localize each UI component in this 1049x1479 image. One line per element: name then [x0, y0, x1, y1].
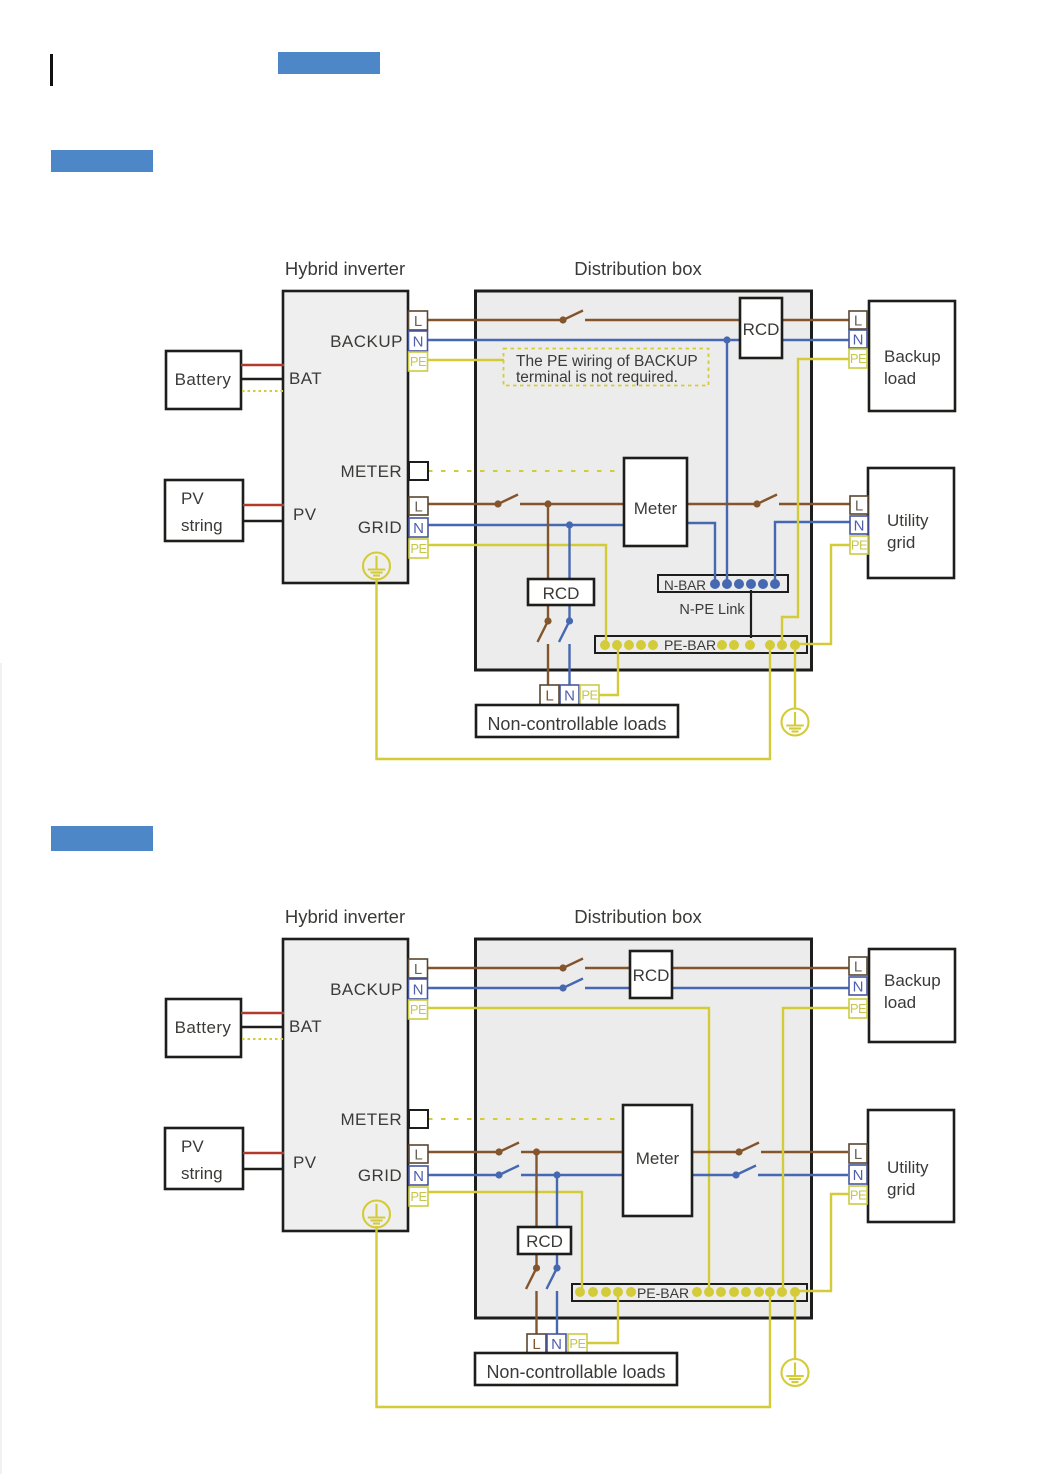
d1 wire inverter ground to PE-BAR	[377, 578, 771, 759]
d2 switch GRID L right	[735, 1143, 759, 1156]
d2 wire PE-BAR to earth	[794, 1292, 796, 1359]
svg-text:N: N	[853, 1167, 864, 1184]
svg-text:PV: PV	[181, 489, 204, 508]
d1 wire N-BAR to utility N	[775, 522, 850, 584]
svg-text:N: N	[853, 331, 864, 348]
svg-text:load: load	[884, 369, 916, 388]
d2 wire GRID N segment a	[428, 1174, 499, 1176]
d2 loads terminal N	[547, 1334, 566, 1353]
d2 wire GRID L segment c	[761, 1151, 848, 1153]
svg-text:Backup: Backup	[884, 971, 941, 990]
d1 PV string box	[165, 480, 243, 541]
svg-text:N: N	[854, 517, 865, 534]
d2 wire battery comm dotted	[242, 1038, 284, 1040]
svg-text:PV: PV	[181, 1137, 204, 1156]
svg-text:Utility: Utility	[887, 511, 929, 530]
d1 note dashed box	[504, 349, 709, 386]
d2 switch GRID N right	[732, 1166, 756, 1179]
svg-text:Non-controllable loads: Non-controllable loads	[486, 1362, 665, 1382]
d1 N-BAR body	[658, 575, 788, 592]
d2 switch RCD N	[547, 1264, 561, 1289]
d1 wire GRID PE to PE-BAR	[428, 545, 606, 645]
d1 junction GRID L	[544, 500, 551, 507]
d1 PE-BAR dots	[600, 640, 800, 650]
d2 inverter GRID terminal N	[409, 1166, 428, 1185]
d2 loads terminal PE	[568, 1334, 587, 1353]
d2 utility terminal L	[849, 1144, 867, 1163]
d2 wire GRID N segment b	[521, 1174, 736, 1176]
d1 wire backup load PE	[782, 359, 849, 645]
svg-text:L: L	[414, 961, 422, 978]
d2 switch RCD L	[526, 1264, 540, 1289]
d1 inverter GRID terminal L	[409, 497, 428, 515]
d1 utility grid label	[887, 511, 929, 552]
svg-text:PE-BAR: PE-BAR	[664, 637, 716, 653]
svg-text:PE: PE	[850, 1188, 867, 1203]
d1 junction BACKUP N	[723, 336, 730, 343]
d1 distribution box body	[476, 291, 812, 670]
d1 wire BACKUP PE to note	[428, 359, 504, 361]
d1 PE-BAR body	[595, 636, 807, 653]
d2 hybrid inverter body	[283, 939, 408, 1231]
d1 RCD backup box	[740, 298, 782, 358]
d2 distribution box body	[476, 939, 812, 1318]
svg-text:N: N	[853, 978, 864, 995]
d2 wire GRID PE to PE-BAR	[428, 1192, 582, 1292]
d2 inverter BACKUP terminal L	[409, 959, 428, 978]
svg-text:N: N	[564, 687, 575, 704]
d1 backup load terminal N	[849, 330, 867, 348]
svg-text:PE: PE	[410, 1002, 427, 1017]
d2 inverter BACKUP terminal N	[409, 979, 428, 999]
d1 wire RCD N to loads	[568, 644, 570, 686]
d2 inverter BACKUP terminal PE	[409, 1000, 428, 1019]
svg-text:grid: grid	[887, 533, 915, 552]
d2 backup load terminal L	[849, 957, 867, 975]
svg-text:L: L	[532, 1336, 540, 1353]
d1 loads terminal N	[560, 685, 579, 705]
redaction block heading 2	[51, 150, 153, 172]
d2 battery box	[166, 999, 241, 1057]
d1 Meter box	[624, 458, 687, 546]
redaction block heading 1	[278, 52, 380, 74]
d2 non-controllable loads box	[475, 1353, 677, 1385]
d2 wire GRID N segment c	[758, 1174, 848, 1176]
d2 switch BACKUP L	[559, 959, 583, 972]
svg-text:Meter: Meter	[636, 1149, 680, 1168]
svg-text:RCD: RCD	[543, 584, 580, 603]
d2 PV string label	[181, 1137, 223, 1183]
d2 wire loads PE to PE-BAR	[587, 1292, 618, 1343]
svg-text:PE: PE	[410, 354, 427, 369]
svg-text:N: N	[413, 333, 424, 350]
svg-text:PE: PE	[581, 688, 598, 703]
d1 wire PV minus	[243, 520, 284, 523]
svg-text:PE: PE	[851, 538, 868, 553]
svg-text:Distribution box: Distribution box	[574, 906, 702, 927]
svg-text:N-BAR: N-BAR	[664, 578, 706, 593]
d2 PE-BAR dots	[575, 1287, 800, 1297]
d2 inverter earth symbol	[363, 1201, 390, 1228]
svg-text:grid: grid	[887, 1180, 915, 1199]
d2 wire METER dashed	[428, 1118, 623, 1120]
d1 wire RCD L to loads	[547, 644, 549, 686]
d2 wire battery minus	[241, 1026, 284, 1029]
svg-text:The PE wiring of BACKUP: The PE wiring of BACKUP	[516, 353, 698, 370]
svg-text:L: L	[414, 1146, 422, 1163]
d1 wire GRID N	[428, 524, 624, 526]
svg-text:BACKUP: BACKUP	[330, 332, 403, 351]
svg-text:PE: PE	[569, 1336, 586, 1351]
d1 inverter earth symbol	[363, 553, 390, 580]
d2 backup load terminal PE	[849, 999, 867, 1018]
svg-text:L: L	[854, 1146, 862, 1163]
svg-text:Hybrid inverter: Hybrid inverter	[285, 258, 405, 279]
svg-text:Non-controllable loads: Non-controllable loads	[487, 714, 666, 734]
d2 wire RCD L to loads	[535, 1291, 537, 1335]
svg-text:RCD: RCD	[633, 966, 670, 985]
svg-text:L: L	[854, 312, 862, 329]
svg-text:Hybrid inverter: Hybrid inverter	[285, 906, 405, 927]
d1 utility terminal N	[850, 516, 868, 534]
d1 backup load terminal L	[849, 311, 867, 329]
d1 wire METER dashed	[428, 470, 624, 472]
d2 wire backup load PE	[783, 1008, 849, 1292]
svg-text:terminal is not required.: terminal is not required.	[516, 369, 678, 386]
d2 RCD backup box	[630, 951, 672, 998]
d1 inverter GRID terminal PE	[409, 539, 428, 558]
svg-text:N: N	[413, 981, 424, 998]
d1 backup load box	[869, 301, 955, 411]
d2 switch BACKUP N	[559, 979, 583, 992]
d1 PV string label	[181, 489, 223, 535]
d1 wire RCD N vertical	[568, 525, 570, 621]
d1 junction GRID N	[566, 521, 573, 528]
svg-text:Distribution box: Distribution box	[574, 258, 702, 279]
d1 backup load terminal PE	[849, 349, 867, 368]
svg-text:PV: PV	[293, 1153, 317, 1172]
d1 wire BACKUP N to N-BAR	[726, 340, 728, 584]
d1 switch RCD N	[559, 617, 573, 642]
svg-text:N: N	[413, 520, 424, 537]
svg-text:Utility: Utility	[887, 1158, 929, 1177]
svg-text:Backup: Backup	[884, 347, 941, 366]
d1 switch RCD L	[538, 617, 552, 642]
d1 non-controllable loads box	[476, 705, 678, 737]
d2 Meter box	[623, 1105, 692, 1216]
d2 backup load label	[884, 971, 941, 1012]
d1 utility terminal L	[850, 496, 868, 514]
svg-text:GRID: GRID	[358, 1166, 402, 1185]
d1 wire BACKUP L segment b	[585, 319, 849, 321]
d2 wire PV minus	[243, 1168, 284, 1171]
svg-text:PV: PV	[293, 505, 317, 524]
svg-text:PE-BAR: PE-BAR	[637, 1285, 689, 1301]
d2 wire inverter ground to PE-BAR	[377, 1226, 771, 1407]
d2 backup load box	[869, 949, 955, 1042]
d2 wire BACKUP PE to PE-BAR	[428, 1008, 709, 1292]
svg-text:N: N	[551, 1336, 562, 1353]
d1 wire PE-BAR to earth	[794, 645, 796, 708]
d1 wire BACKUP N	[428, 339, 849, 341]
svg-text:L: L	[414, 498, 422, 515]
svg-text:PE: PE	[410, 1189, 427, 1204]
svg-text:L: L	[855, 497, 863, 514]
svg-text:BAT: BAT	[289, 369, 322, 388]
svg-text:L: L	[854, 958, 862, 975]
d2 inverter GRID terminal L	[409, 1145, 428, 1163]
svg-text:load: load	[884, 993, 916, 1012]
d2 switch GRID N left	[495, 1166, 519, 1179]
d1 N-BAR dots	[710, 579, 780, 589]
d1 wire battery plus	[241, 364, 284, 367]
d1 loads terminal PE	[580, 685, 599, 705]
svg-text:N: N	[413, 1168, 424, 1185]
d2 backup load terminal N	[849, 977, 867, 995]
d2 inverter METER terminal	[409, 1110, 428, 1128]
cursor bar top-left	[50, 54, 53, 86]
redaction block heading 3	[51, 826, 153, 851]
d1 RCD loads box	[528, 579, 594, 605]
d1 hybrid inverter body	[283, 291, 408, 583]
d1 switch GRID L right	[753, 495, 777, 508]
d2 junction GRID N	[553, 1171, 560, 1178]
d2 wire RCD N to loads	[556, 1291, 558, 1335]
svg-text:N-PE Link: N-PE Link	[679, 602, 745, 618]
d1 loads terminal L	[540, 685, 559, 705]
d2 wire utility PE	[797, 1194, 849, 1291]
svg-text:METER: METER	[341, 1110, 403, 1129]
d1 wire PV plus	[243, 504, 284, 507]
d2 loads terminal L	[527, 1334, 546, 1353]
d2 wire GRID L segment a	[428, 1151, 499, 1153]
svg-text:RCD: RCD	[526, 1232, 563, 1251]
svg-text:Battery: Battery	[175, 370, 232, 389]
d1 inverter METER terminal	[409, 462, 428, 480]
d1 inverter GRID terminal N	[409, 518, 428, 537]
d1 N-PE link wire	[750, 590, 752, 638]
d2 wire BACKUP L segment b	[585, 967, 849, 969]
d1 wire battery minus	[241, 378, 284, 381]
d2 wire BACKUP N segment b	[585, 987, 849, 989]
d2 junction GRID L	[533, 1148, 540, 1155]
svg-text:METER: METER	[341, 462, 403, 481]
d2 wire RCD N vertical	[556, 1175, 558, 1268]
d1 battery box	[166, 351, 241, 409]
d2 utility terminal PE	[849, 1186, 867, 1204]
svg-text:BACKUP: BACKUP	[330, 980, 403, 999]
svg-text:Meter: Meter	[634, 499, 678, 518]
d1 inverter BACKUP terminal N	[409, 331, 428, 351]
d1 utility grid box	[868, 468, 954, 578]
d2 wire RCD L vertical	[535, 1152, 537, 1268]
svg-text:GRID: GRID	[358, 518, 402, 537]
d1 backup load label	[884, 347, 941, 388]
svg-text:PE: PE	[410, 541, 427, 556]
svg-text:PE: PE	[850, 1001, 867, 1016]
d2 PE-BAR body	[572, 1284, 807, 1301]
d2 utility terminal N	[849, 1165, 867, 1184]
d2 wire battery plus	[241, 1012, 284, 1015]
d1 wire battery comm dotted	[242, 390, 284, 392]
d1 wire RCD L vertical	[547, 504, 549, 621]
d2 wire BACKUP L segment a	[428, 967, 563, 969]
d1 inverter BACKUP terminal L	[409, 311, 428, 330]
d1 wire GRID L segment a	[428, 503, 498, 505]
d1 wire loads PE to PE-BAR	[599, 645, 618, 695]
d2 utility grid box	[868, 1110, 954, 1222]
d2 wire BACKUP N segment a	[428, 987, 563, 989]
d2 inverter GRID terminal PE	[409, 1187, 428, 1206]
d1 utility terminal PE	[850, 536, 868, 554]
d2 PV string box	[165, 1128, 243, 1189]
svg-text:BAT: BAT	[289, 1017, 322, 1036]
d1 external earth symbol	[782, 709, 809, 736]
d2 RCD loads box	[518, 1227, 571, 1254]
d2 wire PV plus	[243, 1152, 284, 1155]
d1 wire GRID L segment b	[520, 503, 757, 505]
svg-text:L: L	[414, 313, 422, 330]
d1 note text	[516, 353, 698, 386]
svg-text:string: string	[181, 516, 223, 535]
d1 switch BACKUP L	[559, 311, 583, 324]
d1 wire meter N to N-BAR	[687, 523, 715, 584]
svg-text:L: L	[545, 687, 553, 704]
svg-text:string: string	[181, 1164, 223, 1183]
svg-text:Battery: Battery	[175, 1018, 232, 1037]
svg-text:RCD: RCD	[743, 320, 780, 339]
d2 wire GRID L segment b	[521, 1151, 739, 1153]
d2 external earth symbol	[782, 1359, 809, 1386]
svg-text:PE: PE	[850, 351, 867, 366]
d2 utility grid label	[887, 1158, 929, 1199]
left margin mark	[0, 663, 2, 1474]
d1 wire GRID L segment c	[779, 503, 850, 505]
d1 wire BACKUP L segment a	[428, 319, 563, 321]
d1 wire utility PE	[797, 545, 850, 644]
d2 switch GRID L left	[495, 1143, 519, 1156]
d1 inverter BACKUP terminal PE	[409, 352, 428, 371]
d1 switch GRID L left	[494, 495, 518, 508]
